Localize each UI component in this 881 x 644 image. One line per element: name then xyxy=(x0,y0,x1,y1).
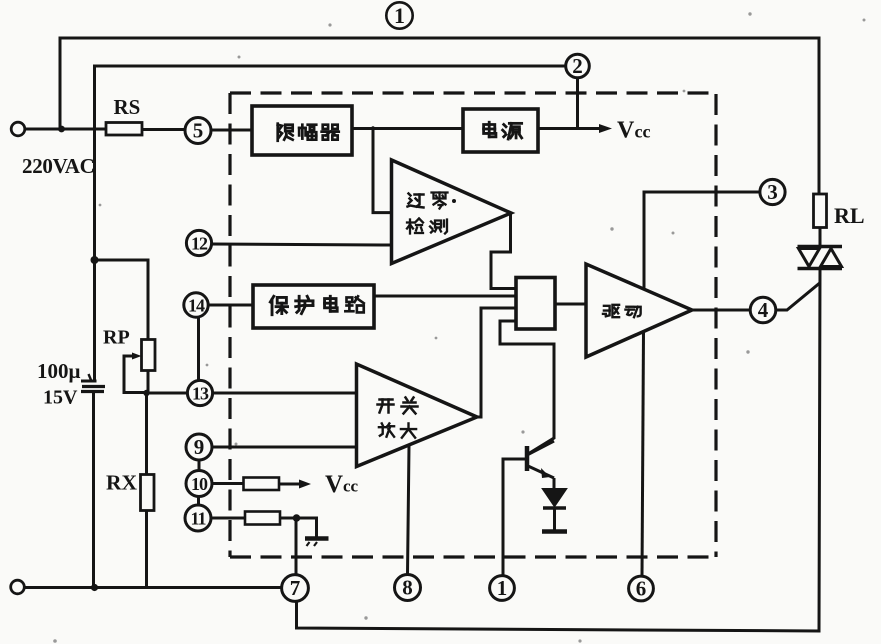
terminal (top left) xyxy=(11,122,25,136)
wire: logic block to drive amp xyxy=(555,303,586,306)
switch amp xyxy=(357,364,478,467)
wire: RP top branch from left vertical xyxy=(95,260,149,340)
label 过零检测 xyxy=(407,193,456,234)
resistor RX body xyxy=(141,475,155,511)
pin 2 xyxy=(566,54,590,78)
Vcc arrow (pin 10) xyxy=(299,480,311,489)
wire: limiter output branch down to zero-cross input xyxy=(373,129,391,213)
wire: pin 4 to triac gate xyxy=(776,284,819,310)
wire: bottom rail terminal to pin 7 xyxy=(25,586,282,589)
wire: left main vertical (to capacitor top plate) xyxy=(93,66,96,380)
wire: pin 14 down to pin 13 xyxy=(197,317,200,381)
wire: left main vertical (below capacitor) xyxy=(92,392,95,588)
pin 7 xyxy=(282,575,309,602)
svg-text:14: 14 xyxy=(188,296,205,316)
junction dot pin11 xyxy=(293,514,301,522)
pin 10 xyxy=(186,471,212,497)
wire: power box to Vcc arrow xyxy=(538,127,602,130)
junction dot bottom-left rail xyxy=(91,584,98,591)
wire: resistor to junction (pin 11) xyxy=(280,517,296,520)
wire: zero-cross output jog to logic block xyxy=(491,213,516,289)
pin 13 xyxy=(187,380,212,405)
wire: drive amp output to pin 4 xyxy=(692,309,751,312)
pin 9 xyxy=(186,434,212,460)
wire: pin 10-11 link xyxy=(197,497,200,506)
dashed IC boundary box xyxy=(230,93,716,557)
wire: pin 6 riser xyxy=(642,332,644,576)
wire: pin 2 drop to Vcc line xyxy=(576,78,579,129)
svg-text:100μ: 100μ xyxy=(37,359,81,383)
resistor RS xyxy=(106,123,142,136)
svg-text:10: 10 xyxy=(191,474,208,494)
wire: RS to pin 5 xyxy=(142,128,185,131)
pin 5 xyxy=(185,118,211,144)
wire: right rail above RL xyxy=(818,38,821,194)
label 开关放大 xyxy=(378,398,418,438)
resistor at pin 11 xyxy=(245,512,280,525)
svg-text:6: 6 xyxy=(636,577,647,601)
ground symbol xyxy=(305,539,329,547)
logic block xyxy=(516,278,555,330)
label 保护电路 xyxy=(270,296,363,314)
svg-text:8: 8 xyxy=(402,576,413,600)
wire: RP/RX vertical xyxy=(145,393,148,475)
svg-text:9: 9 xyxy=(194,435,205,459)
wire: pin 9 to switch amp xyxy=(212,446,356,449)
label 电源 xyxy=(484,122,522,139)
svg-text:RL: RL xyxy=(834,203,865,228)
wire: 220VAC line from terminal to RS xyxy=(25,128,107,131)
svg-text:V: V xyxy=(325,471,343,498)
wire: logic block to transistor collector path xyxy=(500,321,554,454)
terminal (bottom left) xyxy=(11,580,25,594)
pin 11 xyxy=(185,505,211,531)
wire: resistor to Vcc arrow (pin 10) xyxy=(279,483,299,486)
wire: protection box to logic block xyxy=(374,295,516,298)
Vcc arrow (top) xyxy=(599,124,612,133)
svg-text:1: 1 xyxy=(394,3,405,28)
svg-text:cc: cc xyxy=(635,122,651,142)
wire: RP wiper arm xyxy=(124,356,146,393)
label 驱动 xyxy=(603,305,641,317)
wire: pin 13 left to RP junction xyxy=(147,392,188,395)
diode D1 xyxy=(543,489,566,506)
wire: pin 9-10 link xyxy=(198,460,201,471)
wire: RL to triac xyxy=(819,228,822,247)
wire: top loop left vertical xyxy=(59,38,62,129)
svg-text:7: 7 xyxy=(290,576,301,600)
svg-text:RS: RS xyxy=(114,95,141,119)
pin 6 xyxy=(629,576,654,601)
wire: junction down to pin 7 xyxy=(295,518,298,575)
pin 12 xyxy=(186,230,211,255)
junction dot top loop xyxy=(58,126,65,133)
svg-text:11: 11 xyxy=(190,509,206,529)
wire: pin 11 to resistor xyxy=(211,517,245,520)
wire: switch amp output up to logic block xyxy=(477,308,516,417)
label 限幅器 xyxy=(278,124,339,141)
wire: junction to ground symbol xyxy=(296,518,317,537)
svg-text:2: 2 xyxy=(572,54,583,78)
pin 4 xyxy=(750,297,776,323)
wire: pin 8 riser xyxy=(408,446,410,575)
resistor RL xyxy=(814,194,827,228)
svg-text:220VAC: 220VAC xyxy=(22,154,95,178)
capacitor C1 plates xyxy=(81,380,97,383)
svg-text:15V: 15V xyxy=(43,387,78,409)
wire: RP bottom to junction xyxy=(147,371,150,394)
wire: pin 10 to resistor xyxy=(212,482,244,485)
junction dot RP branch xyxy=(91,256,99,264)
wire: pin 3 to drive amp top xyxy=(644,192,760,288)
svg-text:13: 13 xyxy=(192,384,209,404)
limiter box U-block xyxy=(252,106,352,155)
svg-text:4: 4 xyxy=(758,298,769,322)
svg-text:RP: RP xyxy=(103,327,130,349)
pin 3 xyxy=(760,179,785,204)
wire: pin 13 right to switch amp xyxy=(213,392,357,395)
transistor Q1 xyxy=(503,441,554,489)
triac T1 xyxy=(798,247,843,269)
svg-text:5: 5 xyxy=(193,119,204,143)
wire: top loop horizontal xyxy=(60,37,819,40)
wire: pin 12 to zero-cross detector xyxy=(212,244,392,245)
svg-text:cc: cc xyxy=(343,477,359,496)
RP wiper arrowhead xyxy=(132,353,142,360)
junction dot RP bottom xyxy=(143,390,149,396)
pin 14 xyxy=(184,293,208,317)
potentiometer RP body xyxy=(142,340,156,371)
wire: limiter to power box xyxy=(352,127,463,130)
svg-text:3: 3 xyxy=(767,180,778,204)
junction dot limiter branch xyxy=(371,126,375,130)
resistor at pin 10 xyxy=(244,478,280,491)
wire: pin 14 to protection box xyxy=(208,304,253,307)
power supply box xyxy=(463,109,538,152)
protection circuit box xyxy=(253,285,374,328)
wire: pin 5 to limiter box xyxy=(209,129,252,132)
wire: pin 7 drop and bottom loop xyxy=(297,602,820,631)
wire: triac down right rail xyxy=(819,269,820,631)
zero-crossing detector amp xyxy=(392,160,512,264)
wire: pin 1 riser (transistor base) xyxy=(502,459,505,576)
svg-text:RX: RX xyxy=(106,471,138,495)
svg-text:V: V xyxy=(617,118,635,144)
wire: RX to bottom rail xyxy=(145,511,148,588)
figure label circled 1 xyxy=(386,2,412,28)
svg-text:1: 1 xyxy=(497,576,508,600)
wire: second horizontal to pin 2 xyxy=(95,65,567,68)
drive amp xyxy=(586,264,692,357)
pin 8 xyxy=(395,575,421,601)
svg-text:12: 12 xyxy=(191,234,208,254)
pin 1 xyxy=(490,576,515,601)
